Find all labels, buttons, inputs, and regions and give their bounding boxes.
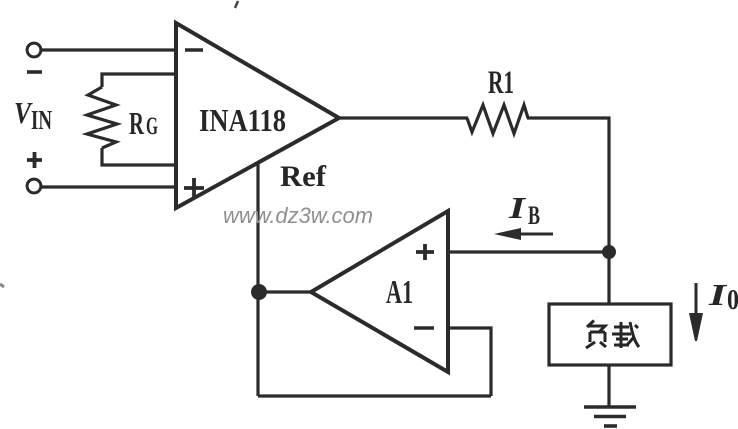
svg-text:0: 0 (727, 285, 738, 316)
minus mark inside INA118 (185, 48, 203, 52)
input terminal (minus input) (27, 43, 41, 57)
svg-text:R: R (129, 105, 145, 141)
plus polarity mark (27, 152, 42, 168)
wire (RG top stub) (102, 74, 176, 87)
ground (584, 407, 636, 426)
wire (feedback up to minus input) (448, 328, 491, 396)
current arrow IB (494, 228, 553, 240)
minus polarity mark (27, 70, 42, 74)
svg-text:I: I (708, 277, 728, 312)
wire (bottom feedback run) (258, 394, 491, 397)
wire (RG bottom stub) (102, 148, 176, 165)
stray mark left edge (0, 284, 4, 287)
svg-text:IN: IN (31, 105, 52, 135)
minus mark inside A1 (414, 326, 434, 330)
op-amp U1 INA118 (176, 23, 339, 208)
svg-text:I: I (508, 190, 527, 225)
load label 负载 (drawn strokes) (586, 321, 639, 349)
svg-text:INA118: INA118 (199, 102, 286, 138)
svg-text:G: G (146, 113, 158, 140)
node (Ref / A1 output junction) (251, 284, 267, 300)
current arrow I0 (689, 283, 703, 341)
resistor R1 (467, 105, 528, 134)
svg-text:Ref: Ref (280, 160, 327, 193)
op-amp A1 (311, 211, 448, 372)
载 (614, 322, 629, 337)
svg-text:R1: R1 (488, 65, 514, 101)
input terminal (plus input) (27, 179, 41, 193)
wire (bottom input to INA118) (42, 185, 176, 188)
wire (A1 output to Ref node) (259, 290, 311, 293)
wire (Ref pin) (256, 162, 259, 292)
wire (node down left vertical) (256, 292, 259, 396)
node (load top junction) (602, 245, 616, 259)
resistor RG (87, 87, 117, 148)
stray mark top (235, 1, 238, 8)
svg-text:B: B (528, 201, 540, 230)
wire (INA118 output to R1) (339, 116, 468, 119)
负 (587, 321, 594, 328)
svg-text:A1: A1 (386, 274, 413, 311)
wire (R1 to right corner) (527, 118, 609, 252)
wire (node down to load) (607, 252, 610, 304)
wire (top input to INA118) (42, 48, 176, 51)
load box (549, 304, 671, 365)
plus mark inside INA118 (184, 178, 204, 198)
wire (load to ground) (607, 365, 610, 407)
wire (A1 plus input to node) (448, 250, 609, 253)
svg-text:www.dz3w.com: www.dz3w.com (223, 203, 373, 228)
plus mark inside A1 (416, 244, 434, 260)
